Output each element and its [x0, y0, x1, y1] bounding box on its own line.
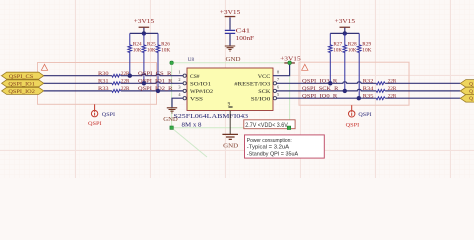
blanket directive right: [299, 62, 409, 105]
svg-text:QSPI: QSPI: [346, 122, 360, 128]
svg-text:GND: GND: [223, 143, 239, 149]
pin 6 SCK: [258, 85, 280, 95]
svg-text:10K: 10K: [161, 48, 170, 54]
junction: [142, 31, 146, 35]
blanket directive left: [38, 63, 157, 105]
resistor R30: [98, 71, 130, 77]
svg-text:22R: 22R: [121, 86, 130, 92]
port right row1: [460, 80, 474, 88]
svg-text:SI/IO0: SI/IO0: [251, 96, 271, 102]
junction: [343, 31, 347, 35]
resistor R28: [343, 33, 357, 91]
resistor R27: [328, 33, 342, 83]
parameter set QSPI (right): [346, 105, 372, 128]
svg-text:10K: 10K: [147, 48, 156, 54]
svg-text:+3V15: +3V15: [134, 19, 155, 25]
svg-text:VCC: VCC: [258, 74, 271, 80]
svg-text:SO/IO1: SO/IO1: [190, 82, 211, 88]
svg-text:QSPI_IO2_R: QSPI_IO2_R: [138, 86, 173, 92]
resistor R26: [156, 33, 170, 91]
pin 2 SO/IO1: [178, 77, 211, 87]
svg-text:22R: 22R: [388, 86, 397, 92]
svg-text:22R: 22R: [388, 93, 397, 99]
svg-text:Q: Q: [469, 82, 473, 87]
pin 7 #RESET/IO3: [234, 77, 280, 87]
power port +3V15 (right pull-ups): [335, 19, 356, 33]
svg-text:GND: GND: [226, 57, 242, 63]
svg-text:CS#: CS#: [190, 74, 200, 80]
wire QSPI_IO3 row: [277, 82, 461, 84]
svg-text:R33: R33: [98, 86, 109, 92]
selection guide lines (green): [172, 63, 290, 157]
power port +3V15 (VCC pin): [280, 56, 301, 63]
svg-text:R34: R34: [363, 86, 374, 92]
junction: [128, 74, 132, 78]
svg-text:QSPI_SCK_R: QSPI_SCK_R: [302, 86, 339, 92]
selection handle top-right: [288, 61, 291, 64]
svg-text:U8: U8: [188, 57, 195, 63]
svg-text:-Typical = 3.2uA: -Typical = 3.2uA: [247, 145, 289, 151]
svg-text:+3V15: +3V15: [220, 10, 241, 16]
svg-text:R35: R35: [363, 93, 374, 99]
svg-text:Q: Q: [469, 97, 473, 102]
svg-text:QSPI_IO2: QSPI_IO2: [8, 89, 35, 95]
ground (VSS): [163, 108, 178, 123]
wire VSS to ground: [172, 98, 183, 107]
svg-text:10K: 10K: [348, 48, 357, 54]
pin 4 VSS: [178, 92, 203, 102]
svg-text:R30: R30: [98, 71, 109, 77]
port QSPI_IO1: [2, 80, 44, 88]
svg-text:QSPI_IO1: QSPI_IO1: [8, 82, 35, 88]
resistor R33: [98, 86, 130, 92]
svg-text:QSPI: QSPI: [358, 112, 371, 118]
resistor R24: [128, 33, 142, 75]
resistor R29: [357, 33, 371, 98]
svg-text:QSPI: QSPI: [102, 112, 115, 118]
svg-text:S25FL064LABMFI043: S25FL064LABMFI043: [174, 114, 249, 120]
wire QSPI_IO0 row: [277, 97, 461, 99]
port QSPI_IO2: [2, 87, 44, 95]
net label QSPI_CS_R: [138, 71, 172, 77]
wire QSPI_IO2 row: [44, 90, 183, 92]
svg-text:SCK: SCK: [258, 89, 270, 95]
pin 9 pad: [228, 103, 233, 108]
resistor R25: [142, 33, 156, 83]
svg-text:QSPI_IO0_R: QSPI_IO0_R: [302, 93, 338, 99]
port right row2: [460, 87, 474, 95]
junction: [357, 96, 361, 100]
svg-text:22R: 22R: [388, 79, 397, 85]
net label QSPI_IO1_R: [138, 79, 173, 85]
svg-text:R31: R31: [98, 79, 109, 85]
svg-text:8: 8: [277, 70, 279, 75]
svg-text:QSPI_CS_R: QSPI_CS_R: [138, 71, 172, 77]
svg-text:3: 3: [178, 85, 180, 90]
svg-text:8M x 8: 8M x 8: [182, 122, 202, 128]
capacitor C41: [225, 29, 255, 43]
svg-text:100nF: 100nF: [236, 36, 255, 42]
selection handle top-left: [170, 61, 173, 64]
wire: [229, 34, 231, 46]
svg-text:QSPI_CS: QSPI_CS: [9, 74, 34, 80]
value S25FL064LABMFI043: [174, 114, 249, 129]
svg-text:QSPI: QSPI: [88, 121, 102, 127]
wire VCC to +3V15: [273, 63, 290, 75]
svg-text:+3V15: +3V15: [335, 19, 356, 25]
pin 5 SI/IO0: [251, 92, 279, 102]
pin 3 WP#/IO2: [178, 85, 213, 95]
junction: [142, 81, 146, 85]
svg-text:Power consumption:: Power consumption:: [247, 138, 292, 144]
wire QSPI_SCK row: [277, 89, 461, 91]
pin 8 VCC: [258, 70, 279, 80]
wire: left pull-up bus bar: [130, 32, 158, 34]
svg-text:1: 1: [178, 70, 180, 75]
power port +3V15 (left pull-ups): [134, 19, 155, 33]
selection handle bottom-right: [287, 126, 290, 129]
svg-text:-Standby QPI = 35uA: -Standby QPI = 35uA: [247, 151, 298, 157]
port QSPI_CS: [2, 72, 44, 80]
net label QSPI_SCK_R: [302, 86, 339, 92]
note box power consumption: [245, 135, 325, 158]
op-amp U8 flash IC body: [187, 57, 273, 111]
svg-text:C41: C41: [236, 29, 251, 35]
net label QSPI_IO2_R: [138, 86, 173, 92]
wire: right pull-up bus bar: [330, 32, 359, 34]
net label QSPI_IO3_R: [302, 79, 338, 85]
svg-text:R32: R32: [363, 79, 374, 85]
junction: [156, 89, 160, 93]
resistor R32: [363, 79, 397, 85]
net label QSPI_IO0_R: [302, 93, 338, 99]
power port +3V15 (C41): [220, 10, 241, 17]
svg-text:2.7V <VDD< 3.6V: 2.7V <VDD< 3.6V: [245, 122, 288, 129]
svg-text:2: 2: [178, 77, 180, 82]
parameter set QSPI (left): [88, 104, 115, 127]
wire QSPI_CS row: [44, 74, 183, 76]
pin 1 CS#: [178, 70, 200, 80]
junction: [343, 89, 347, 93]
wire QSPI_IO1 row: [44, 82, 183, 84]
svg-text:5: 5: [277, 92, 279, 97]
svg-text:VSS: VSS: [190, 96, 203, 102]
resistor R34: [363, 86, 397, 92]
selection handle bottom-left: [170, 126, 173, 129]
ground (C41): [225, 46, 241, 63]
svg-text:10K: 10K: [333, 48, 342, 54]
note box VDD range: [244, 120, 295, 129]
svg-text:10K: 10K: [133, 48, 142, 54]
svg-text:10K: 10K: [362, 48, 371, 54]
svg-text:22R: 22R: [121, 79, 130, 85]
svg-text:WP#/IO2: WP#/IO2: [190, 89, 213, 95]
svg-text:#RESET/IO3: #RESET/IO3: [234, 82, 270, 88]
junction: [328, 81, 332, 85]
background grid: [0, 0, 474, 178]
resistor R31: [98, 79, 130, 85]
port right row3: [460, 95, 474, 103]
ground (bottom pad): [222, 111, 238, 150]
wire: [229, 17, 231, 29]
resistor R35: [363, 93, 397, 99]
